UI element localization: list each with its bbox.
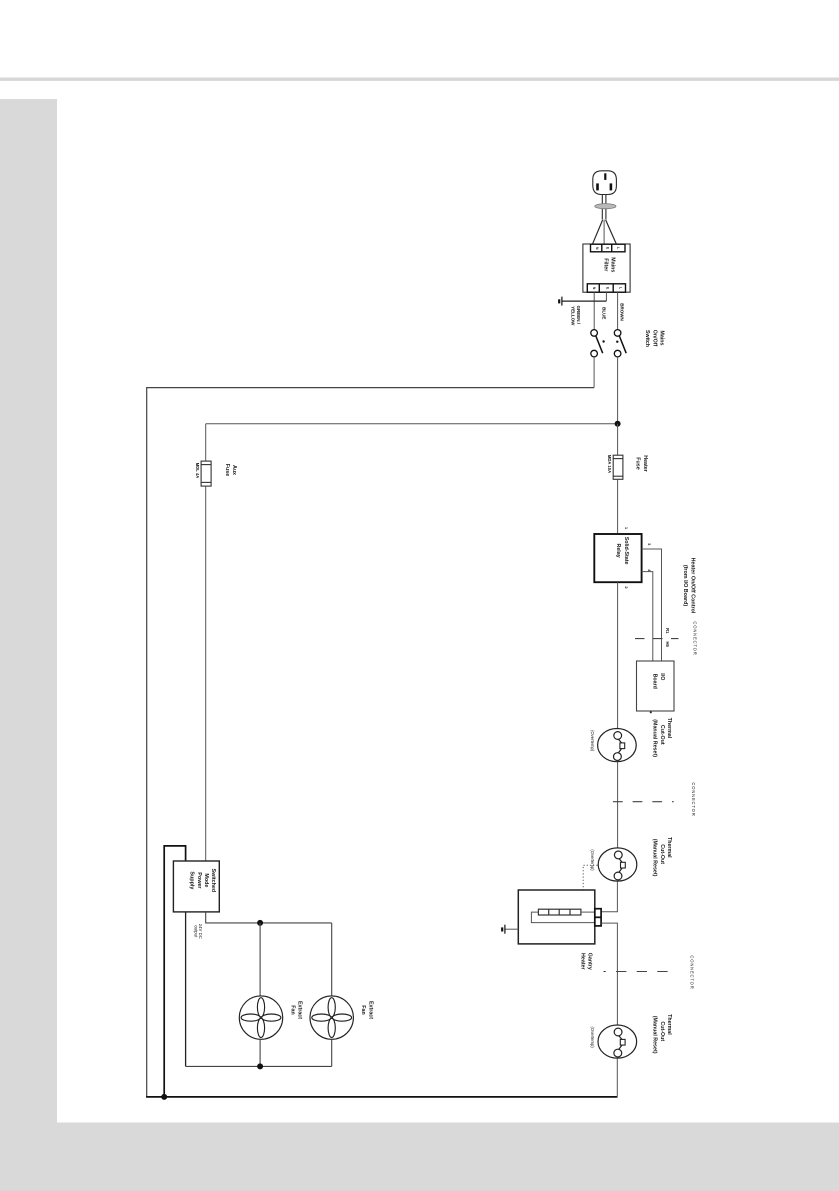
junction: fan rail <box>257 1063 263 1069</box>
svg-text:Heater: Heater <box>642 455 648 472</box>
svg-text:On/Off: On/Off <box>651 330 657 347</box>
wire: earth run to ground <box>562 300 607 302</box>
wire: fan1 feed <box>259 923 261 996</box>
svg-text:(Overtemp): (Overtemp) <box>590 730 595 752</box>
svg-text:MDA 10A: MDA 10A <box>607 455 612 473</box>
wire: heater box ground lead <box>505 928 518 930</box>
wire: SSR pin 2 to thermal cutout 1 <box>617 582 619 729</box>
wire: aux branch down to aux fuse <box>205 424 207 461</box>
svg-text:Extract: Extract <box>297 1001 303 1019</box>
switch coupling dot B <box>616 341 618 343</box>
plug earth pin <box>604 173 606 180</box>
svg-text:I/O: I/O <box>659 673 665 680</box>
wire: neutral horizontal run <box>147 387 594 389</box>
solid-state relay U1 box <box>594 534 641 582</box>
wire: switch pole B down to junction <box>617 357 619 424</box>
wire: SMPS 24V output <box>206 912 332 923</box>
wire: cord fan-out left conductor <box>593 220 603 244</box>
svg-text:E: E <box>606 247 610 250</box>
junction: neutral rail to SMPS <box>161 1094 167 1100</box>
wire: filter N to switch <box>593 292 595 329</box>
svg-text:MDL 4A: MDL 4A <box>195 463 200 479</box>
wire: TC1 to TC2 <box>617 762 619 848</box>
mains on/off switch SW1 pole A (neutral) <box>591 330 603 357</box>
svg-text:Switched: Switched <box>210 869 216 893</box>
svg-text:Cut-Out: Cut-Out <box>659 844 665 864</box>
ground (heater chassis) <box>502 925 505 934</box>
svg-text:Thermal: Thermal <box>666 718 672 739</box>
svg-text:H5: H5 <box>665 642 670 648</box>
ground (mains filter earth) <box>559 297 562 306</box>
wire: fan2 return <box>331 1039 333 1066</box>
wire: SMPS neutral feed <box>164 846 185 1097</box>
svg-text:Thermal: Thermal <box>666 1014 672 1035</box>
plug live pin <box>610 183 613 190</box>
filter top terminal strip <box>591 244 626 252</box>
svg-text:Relay: Relay <box>615 544 621 558</box>
junction: 24V rail fan1 tap <box>257 920 263 926</box>
svg-text:Cut-Out: Cut-Out <box>659 1021 665 1041</box>
svg-text:N: N <box>592 287 596 290</box>
bottom gray margin <box>57 1123 839 1191</box>
svg-text:Thermal: Thermal <box>666 837 672 858</box>
heater element (segmented) <box>538 909 581 915</box>
wire: SSR pin 4 control <box>642 572 653 661</box>
svg-text:Heater: Heater <box>580 953 586 970</box>
wire: fan bottom rail <box>186 1065 332 1067</box>
mains plug P1 body <box>593 171 617 195</box>
thermal cut-out TC2 (manual reset) <box>598 848 637 881</box>
svg-text:E: E <box>605 287 609 290</box>
wire: bottom neutral rail <box>146 1096 617 1098</box>
I/O board U2 box <box>637 661 675 711</box>
wire: switch pole A to neutral rail <box>593 357 595 388</box>
svg-text:Solid-State: Solid-State <box>623 537 629 565</box>
svg-text:(Overtemp): (Overtemp) <box>590 1027 595 1049</box>
svg-text:Board: Board <box>652 674 658 689</box>
svg-text:Fuse: Fuse <box>635 457 641 469</box>
thermal cut-out TC1 (manual reset) <box>598 729 637 762</box>
svg-text:Heater On/Off Control: Heater On/Off Control <box>690 558 696 614</box>
wire: filter L to switch <box>617 292 619 329</box>
svg-text:BLUE: BLUE <box>601 307 606 319</box>
wire: fuse to SSR <box>617 479 619 534</box>
svg-text:L: L <box>619 287 623 289</box>
svg-text:Fan: Fan <box>360 1005 366 1014</box>
mains on/off switch SW1 pole B (live) <box>614 330 626 357</box>
wire: element left return lead <box>531 912 594 923</box>
svg-text:Filter: Filter <box>603 258 609 271</box>
wire: live horizontal to aux branch <box>206 423 618 425</box>
svg-text:CONNECTOR: CONNECTOR <box>692 621 697 655</box>
junction: live tap <box>615 421 621 427</box>
plug neutral pin <box>596 183 599 190</box>
svg-text:YELLOW: YELLOW <box>571 306 576 326</box>
wire: fan1 return <box>259 1039 261 1066</box>
page divider line (top) <box>0 78 839 81</box>
wire: TC2 to gantry heater terminal <box>601 881 617 911</box>
svg-text:N: N <box>595 247 599 250</box>
wire: cord earth conductor <box>603 220 605 244</box>
wire: SSR pin 3 control <box>642 549 662 661</box>
heater fuse F1 <box>613 455 623 479</box>
aux fuse F2 <box>201 461 211 486</box>
svg-text:Fan: Fan <box>289 1005 295 1014</box>
svg-text:GREEN /: GREEN / <box>576 306 581 325</box>
svg-text:Fuse: Fuse <box>224 464 230 476</box>
svg-text:(Manual Reset): (Manual Reset) <box>652 1016 658 1054</box>
svg-text:Cut-Out: Cut-Out <box>659 725 665 745</box>
wire: cord fan-out right conductor <box>606 220 617 244</box>
svg-text:CONNECTOR: CONNECTOR <box>689 955 694 989</box>
connector (heater return) dashed <box>604 971 669 973</box>
switched mode power supply PSU box <box>173 861 219 912</box>
thermal cut-out TC3 (manual reset) <box>598 1025 637 1058</box>
svg-text:(Manual Reset): (Manual Reset) <box>652 839 658 877</box>
switch coupling dot A <box>602 340 604 342</box>
wire: live down to heater fuse <box>617 424 619 456</box>
wire: SMPS 0V to fan rail <box>185 912 187 1067</box>
svg-text:Mains: Mains <box>659 330 665 345</box>
filter bottom terminal strip <box>587 284 625 292</box>
svg-text:Mains: Mains <box>609 257 615 272</box>
svg-text:3: 3 <box>647 543 652 546</box>
svg-text:Supply: Supply <box>189 871 195 889</box>
connector (heater loom) dashed <box>613 801 674 803</box>
wire: TC3 to bottom rail <box>616 1058 618 1097</box>
wire: neutral left vertical <box>146 387 148 1098</box>
left gray margin <box>0 99 57 1191</box>
wire: fan2 feed <box>331 923 333 996</box>
svg-text:L: L <box>616 247 620 249</box>
svg-text:(Manual Reset): (Manual Reset) <box>652 719 658 757</box>
I/O board bottom stub <box>650 711 652 713</box>
svg-text:(Overtemp): (Overtemp) <box>590 849 595 871</box>
wire: element right lead <box>581 911 595 913</box>
svg-text:Power: Power <box>196 872 202 889</box>
svg-text:Extract: Extract <box>367 1001 373 1019</box>
dotted thermal link TC2 to heater <box>583 865 597 890</box>
svg-text:2: 2 <box>624 586 629 589</box>
extract fan M2 <box>310 996 353 1039</box>
mains cable (double line) <box>602 195 606 220</box>
wire: heater return down <box>601 923 617 1025</box>
svg-text:CONNECTOR: CONNECTOR <box>691 782 696 816</box>
svg-text:BROWN: BROWN <box>619 303 624 321</box>
svg-text:Gantry: Gantry <box>587 953 593 970</box>
svg-text:Switch: Switch <box>644 330 650 347</box>
wire: filter E drop <box>605 292 607 301</box>
gantry heater E1 box <box>518 890 595 944</box>
heater terminal block <box>595 909 601 926</box>
connector (SSR control) dashed <box>635 638 679 640</box>
wire: aux fuse to SMPS <box>205 486 207 861</box>
mains filter FL1 box <box>583 244 630 292</box>
extract fan M1 <box>239 996 282 1039</box>
svg-text:1: 1 <box>624 527 629 530</box>
svg-text:output: output <box>193 925 198 938</box>
svg-text:(from I/O Board): (from I/O Board) <box>682 565 688 607</box>
svg-text:Aux: Aux <box>231 465 237 475</box>
svg-text:R1: R1 <box>665 628 670 634</box>
cable grommet <box>595 204 616 209</box>
svg-text:Mode: Mode <box>203 873 209 887</box>
